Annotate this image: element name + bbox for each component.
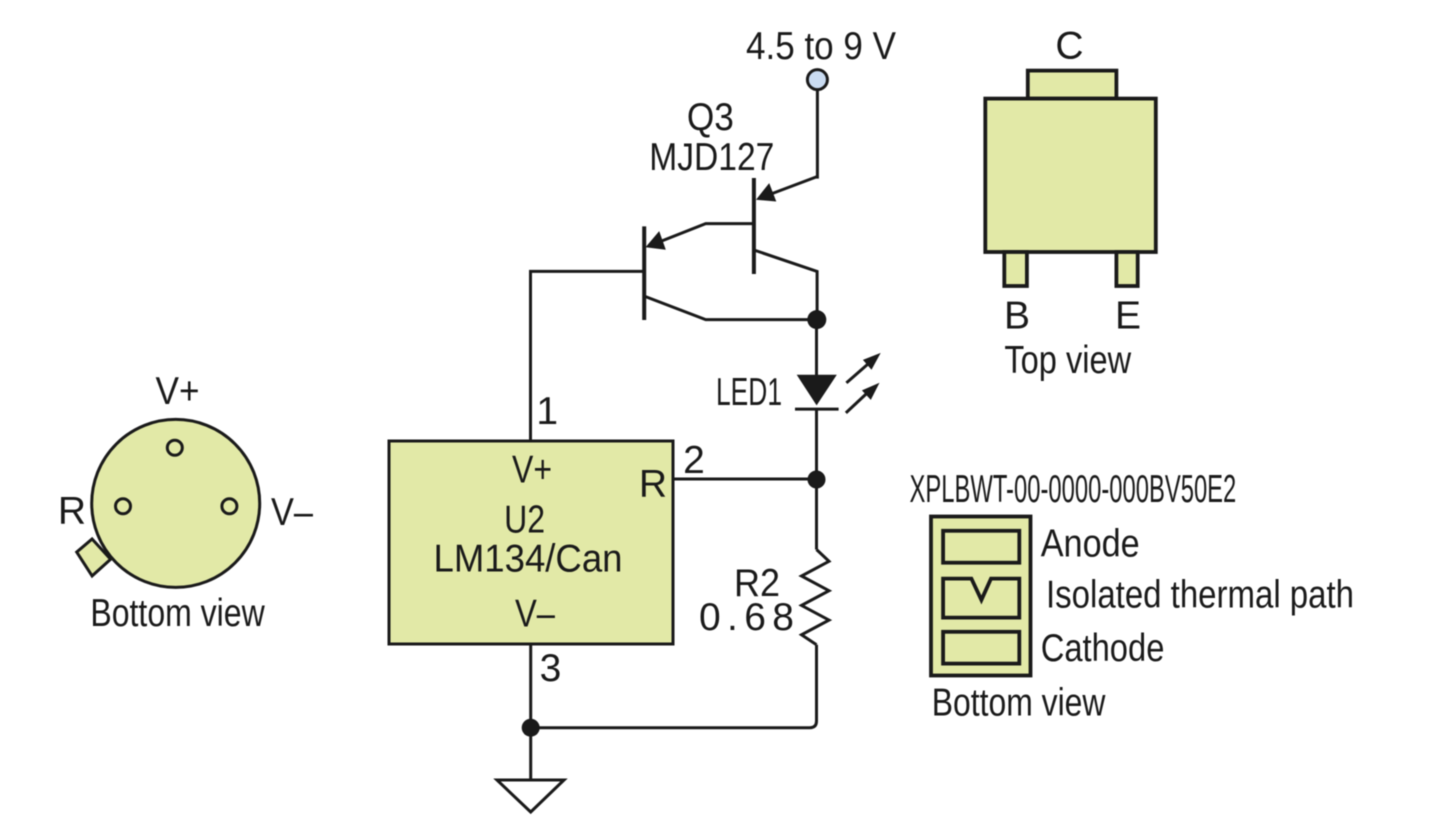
can hole V- — [222, 499, 237, 514]
dpak lead B — [1004, 252, 1027, 286]
IC U2 box — [389, 441, 673, 644]
junction dot (R node) — [808, 471, 826, 489]
LED1 symbol — [795, 353, 881, 480]
wire supply vertical — [816, 90, 819, 179]
TO-can package bottom view — [77, 419, 260, 587]
svg-text:Anode: Anode — [1041, 523, 1140, 566]
svg-text:Bottom view: Bottom view — [932, 681, 1106, 724]
LED package bottom view — [931, 517, 1031, 676]
svg-text:Cathode: Cathode — [1041, 627, 1165, 670]
svg-text:Isolated thermal path: Isolated thermal path — [1046, 574, 1354, 617]
svg-text:0.68: 0.68 — [699, 596, 794, 639]
wire collector to LED — [815, 320, 818, 375]
ground — [497, 780, 564, 812]
led pkg cathode pad — [943, 632, 1019, 664]
can body — [92, 419, 260, 587]
can tab — [77, 539, 111, 576]
svg-text:2: 2 — [683, 439, 705, 482]
svg-text:C: C — [1055, 25, 1083, 68]
wire pin 3 to ground — [529, 644, 532, 780]
svg-text:3: 3 — [540, 647, 562, 690]
svg-text:LM134/Can: LM134/Can — [434, 538, 623, 581]
can hole V+ — [167, 440, 182, 455]
power terminal — [807, 70, 827, 90]
svg-text:R: R — [639, 463, 667, 506]
svg-text:1: 1 — [536, 390, 558, 433]
svg-text:Bottom view: Bottom view — [90, 592, 265, 635]
dpak lead E — [1116, 252, 1137, 286]
can hole R — [116, 499, 131, 514]
resistor R2 — [531, 480, 829, 728]
led pkg anode pad — [943, 531, 1019, 563]
wire pin 2 — [673, 478, 817, 481]
transistor Q3 (PNP darlington pair) — [531, 177, 818, 442]
svg-text:LED1: LED1 — [716, 371, 782, 414]
svg-text:B: B — [1004, 295, 1030, 338]
svg-text:V–: V– — [515, 592, 555, 635]
led pkg thermal pad — [943, 579, 1019, 618]
svg-text:V–: V– — [271, 491, 313, 534]
svg-text:MJD127: MJD127 — [649, 136, 774, 179]
svg-text:XPLBWT-00-0000-000BV50E2: XPLBWT-00-0000-000BV50E2 — [910, 468, 1237, 511]
led pkg outline — [931, 517, 1031, 676]
svg-text:V+: V+ — [156, 370, 200, 413]
svg-text:Q3: Q3 — [687, 96, 734, 139]
DPAK package top view — [985, 71, 1156, 286]
dpak body — [985, 99, 1156, 252]
svg-text:U2: U2 — [504, 499, 545, 542]
svg-text:R: R — [58, 490, 86, 533]
svg-text:E: E — [1115, 295, 1141, 338]
dpak tab — [1028, 71, 1117, 99]
svg-text:4.5 to 9 V: 4.5 to 9 V — [746, 25, 896, 68]
junction dot (pin 3 node) — [522, 719, 540, 737]
svg-text:Top view: Top view — [1004, 339, 1131, 382]
svg-text:V+: V+ — [512, 449, 552, 492]
junction dot (collector node) — [807, 310, 826, 329]
